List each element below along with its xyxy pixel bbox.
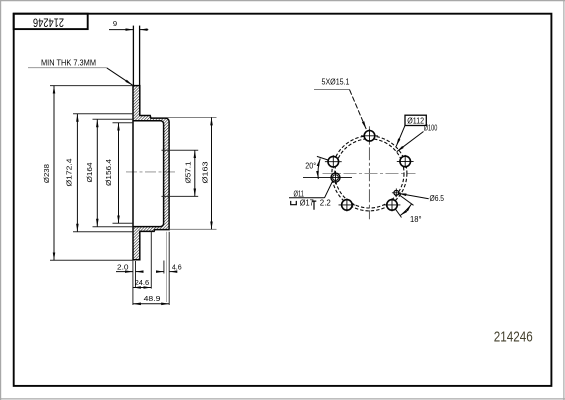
svg-text:214246: 214246 bbox=[33, 16, 64, 28]
svg-text:20°: 20° bbox=[305, 161, 316, 171]
svg-text:Ø112: Ø112 bbox=[407, 115, 424, 125]
bottom ext line 2.0 right bbox=[135, 261, 137, 288]
bolt hole upper-left bbox=[325, 155, 342, 168]
svg-text:Ø57.1: Ø57.1 bbox=[184, 162, 193, 184]
MIN THK leader bbox=[28, 67, 107, 69]
bottom ext gray line bbox=[165, 232, 167, 302]
dim 238 line bbox=[53, 86, 55, 261]
svg-text:48.9: 48.9 bbox=[144, 294, 161, 303]
hub OD extension bar top bbox=[161, 116, 217, 118]
svg-text:Ø164: Ø164 bbox=[85, 162, 94, 183]
svg-text:Ø100: Ø100 bbox=[424, 122, 438, 132]
small hole D6.5 bbox=[392, 188, 401, 197]
svg-text:214246: 214246 bbox=[494, 330, 533, 346]
dim 156.4 extension bars bbox=[113, 122, 133, 124]
svg-text:Ø238: Ø238 bbox=[42, 164, 51, 183]
svg-text:18°: 18° bbox=[410, 214, 422, 224]
bottom ext line ring left bbox=[132, 260, 134, 305]
svg-text:24.6: 24.6 bbox=[135, 278, 150, 287]
bottom ext line hub inner bbox=[163, 261, 165, 274]
counterbored hole D11/D17 bbox=[303, 171, 352, 184]
dim 57.1 line bbox=[194, 150, 196, 196]
bolt hole upper-right bbox=[397, 155, 414, 168]
bolt hole lower-left bbox=[339, 198, 356, 211]
svg-text:Ø17: Ø17 bbox=[300, 198, 314, 208]
bottom ext line hub right bbox=[168, 232, 170, 305]
section centerline bbox=[126, 171, 175, 173]
dim 66 line bbox=[211, 117, 213, 229]
dim 164 line bbox=[96, 119, 98, 226]
svg-text:Ø172.4: Ø172.4 bbox=[65, 158, 74, 187]
horizontal centerline bbox=[323, 172, 416, 174]
svg-text:Ø6.5: Ø6.5 bbox=[430, 193, 445, 203]
svg-text:MIN THK 7.3MM: MIN THK 7.3MM bbox=[41, 58, 96, 68]
dim 156.4 line bbox=[118, 123, 120, 224]
ring bottom extension line bbox=[50, 259, 133, 261]
svg-text:2.2: 2.2 bbox=[320, 198, 331, 208]
hub OD extension bar bottom bbox=[170, 228, 217, 230]
svg-text:2.0: 2.0 bbox=[117, 263, 129, 272]
svg-text:Ø163: Ø163 bbox=[200, 162, 209, 184]
outer circle D112 bbox=[332, 136, 407, 211]
counterbore symbol row bbox=[291, 201, 297, 205]
ring top extension line bbox=[50, 85, 133, 87]
dim 164 extension bars bbox=[93, 118, 133, 120]
dim 172.4 line bbox=[76, 114, 78, 232]
title box top-left bbox=[14, 14, 88, 29]
dim 6 line bbox=[109, 29, 133, 31]
svg-text:6: 6 bbox=[113, 19, 117, 28]
svg-text:Ø156.4: Ø156.4 bbox=[104, 158, 113, 186]
vertical centerline bbox=[368, 126, 370, 219]
bore extension bar top bbox=[162, 149, 199, 151]
brake disc cross-section: friction ring + hat hub (hatched) bbox=[133, 86, 169, 260]
inner circle D100 bbox=[335, 139, 404, 208]
bore extension bar bottom bbox=[162, 195, 199, 197]
thickness extension lines up bbox=[132, 26, 134, 86]
label D112 boxed bbox=[405, 115, 426, 125]
bolt hole top bbox=[361, 129, 378, 142]
svg-text:4.6: 4.6 bbox=[172, 263, 182, 272]
bolt hole lower-right bbox=[384, 198, 401, 211]
bottom ext line 24.6 right bbox=[150, 232, 152, 289]
svg-text:5XØ15.1: 5XØ15.1 bbox=[322, 77, 350, 87]
dim 172.4 extension bars bbox=[73, 113, 133, 115]
